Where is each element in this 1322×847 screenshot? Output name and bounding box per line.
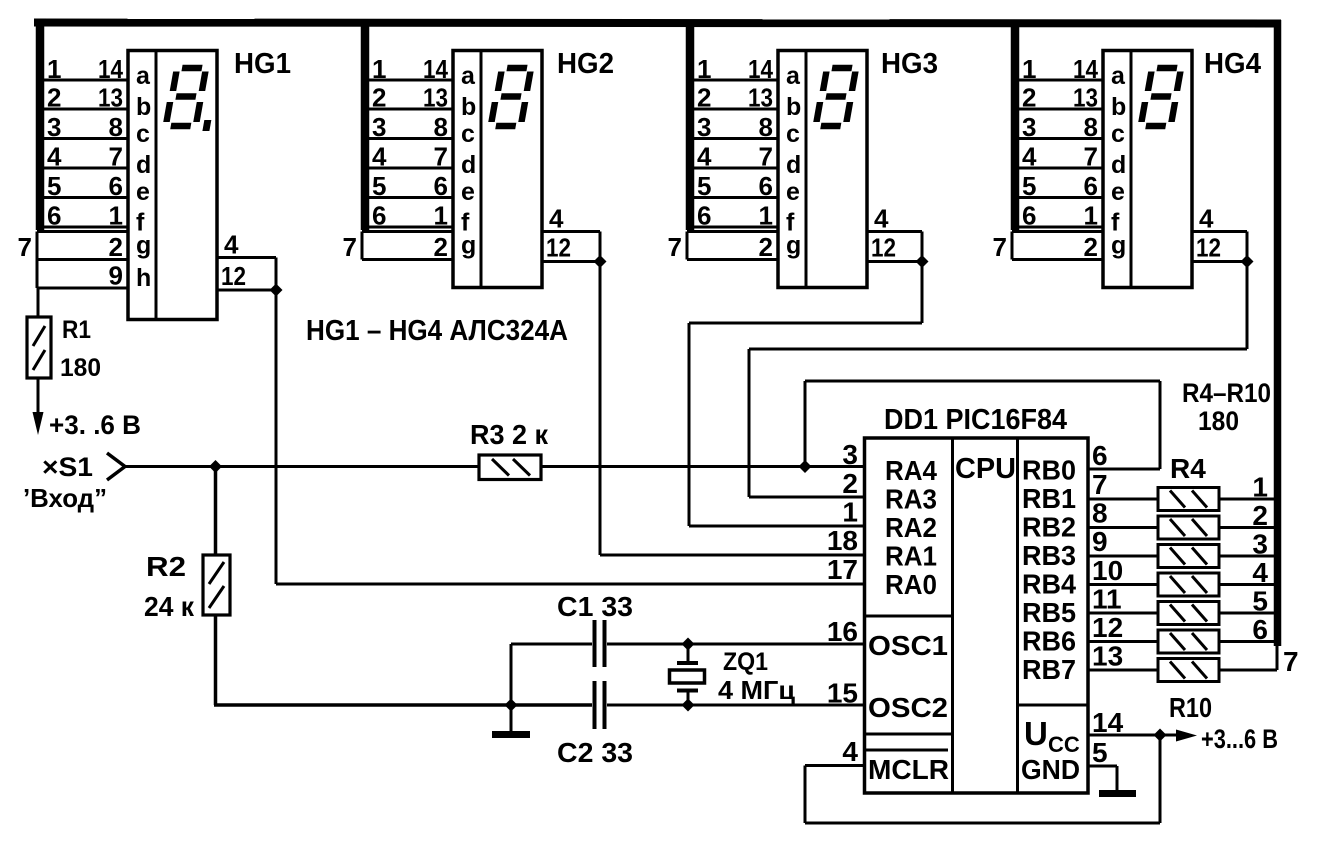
svg-text:4: 4 <box>47 142 62 172</box>
svg-text:C2 33: C2 33 <box>557 737 633 768</box>
IC DD1 left pin numbers <box>827 439 859 767</box>
wire input node to R2 <box>214 467 218 556</box>
wire HG3 pin12 to DD1 pin 1 (RA2) <box>689 262 922 527</box>
resistor R8 <box>1158 602 1219 625</box>
svg-text:RB2: RB2 <box>1022 512 1076 543</box>
svg-text:12: 12 <box>1092 612 1123 643</box>
svg-text:RB4: RB4 <box>1022 569 1076 600</box>
label DD1 PIC16F84 <box>884 404 1067 436</box>
svg-text:e: e <box>786 178 800 206</box>
node Ucc supply junction <box>1154 729 1167 742</box>
svg-text:R1: R1 <box>62 316 91 344</box>
label R4 <box>1170 453 1206 484</box>
svg-text:6: 6 <box>1084 171 1098 201</box>
svg-text:a: a <box>461 62 476 90</box>
svg-text:R2: R2 <box>146 551 186 582</box>
svg-text:ZQ1: ZQ1 <box>723 648 768 676</box>
svg-text:RA4: RA4 <box>885 455 937 486</box>
svg-text:6: 6 <box>434 171 448 201</box>
wire resistor R10 to segment bus (label 7) <box>1219 644 1299 677</box>
svg-text:7: 7 <box>993 232 1007 262</box>
label R3 2 к <box>470 419 549 450</box>
svg-text:6: 6 <box>47 201 61 231</box>
resistor R10 <box>1158 659 1219 682</box>
wire resistor R4 to segment bus (label 1) <box>1219 472 1277 503</box>
svg-text:CPU: CPU <box>955 453 1016 485</box>
svg-text:a: a <box>1111 62 1126 90</box>
svg-text:e: e <box>1111 178 1125 206</box>
segment supply bus: top border (thick) <box>34 23 1281 24</box>
svg-text:5: 5 <box>372 171 386 201</box>
svg-text:1: 1 <box>434 201 448 231</box>
svg-text:R4: R4 <box>1170 453 1206 484</box>
svg-text:4: 4 <box>1022 142 1037 172</box>
svg-text:OSC2: OSC2 <box>868 692 948 723</box>
svg-text:2: 2 <box>372 83 386 113</box>
svg-text:1: 1 <box>1084 201 1098 231</box>
svg-text:1: 1 <box>372 54 386 84</box>
wire R2 to ground rail <box>214 615 592 705</box>
svg-text:HG3: HG3 <box>881 48 938 80</box>
svg-text:5: 5 <box>1252 586 1268 617</box>
svg-text:13: 13 <box>1073 83 1098 113</box>
wire HG2 pin12 to DD1 pin 18 (RA1) <box>600 262 864 556</box>
label R1 180 <box>60 316 101 382</box>
svg-text:1: 1 <box>1252 472 1268 503</box>
svg-text:b: b <box>136 93 151 121</box>
svg-text:11: 11 <box>1092 584 1122 615</box>
resistor R3 <box>479 455 541 480</box>
label R2 24 к <box>144 551 195 622</box>
svg-text:RA1: RA1 <box>885 541 937 572</box>
connector XS1 input plug <box>23 452 125 513</box>
capacitor C1 <box>511 620 605 667</box>
svg-text:7: 7 <box>18 232 32 262</box>
svg-text:c: c <box>136 120 150 148</box>
svg-text:2: 2 <box>697 83 711 113</box>
wire resistor R8 to segment bus (label 5) <box>1219 586 1277 617</box>
display HG1 pin 7 label <box>18 232 32 262</box>
wire C1 to OSC1 node <box>607 643 688 646</box>
svg-text:2: 2 <box>1252 500 1268 531</box>
display HG4 supply bar (thick) <box>1011 20 1020 230</box>
wire resistor R5 to segment bus (label 2) <box>1219 500 1277 531</box>
svg-text:RB3: RB3 <box>1022 540 1076 571</box>
svg-text:6: 6 <box>1252 614 1268 645</box>
display HG1 body <box>128 51 217 320</box>
display HG4 pin boxes with pin numbers <box>1012 54 1103 262</box>
display HG4 label <box>1204 48 1261 80</box>
svg-text:9: 9 <box>1092 526 1108 557</box>
svg-text:d: d <box>1111 151 1126 179</box>
display HG2 supply bar (thick) <box>361 20 370 230</box>
svg-text:4: 4 <box>224 230 239 260</box>
IC DD1 port labels RA4-RA0 <box>885 455 937 600</box>
svg-text:24 к: 24 к <box>144 591 195 622</box>
wire DD1 pin 5 (GND) to ground <box>1088 766 1117 790</box>
resistor R4 <box>1158 488 1219 511</box>
svg-text:2: 2 <box>842 468 858 499</box>
svg-text:d: d <box>461 151 476 179</box>
display HG3 supply bar (thick) <box>686 20 695 230</box>
svg-text:RB5: RB5 <box>1022 597 1076 628</box>
svg-text:c: c <box>786 120 800 148</box>
svg-text:7: 7 <box>434 142 448 172</box>
svg-text:1: 1 <box>47 54 61 84</box>
svg-text:g: g <box>461 232 476 260</box>
display HG2 seven-segment digit <box>491 68 531 126</box>
wire OSC1 node to DD1 pin 16 <box>688 643 864 646</box>
svg-text:HG4: HG4 <box>1204 48 1261 80</box>
resistor R6 <box>1158 545 1219 568</box>
ground symbol (GND pin) <box>1099 790 1136 797</box>
node OSC1 junction <box>682 638 695 651</box>
svg-text:8: 8 <box>434 112 448 142</box>
wire DD1 pin 4 (MCLR) to supply node <box>805 735 1160 823</box>
svg-text:8: 8 <box>759 112 773 142</box>
svg-text:13: 13 <box>1092 641 1123 672</box>
svg-text:RB6: RB6 <box>1022 626 1076 657</box>
display HG2 label <box>557 48 614 80</box>
wire XS1 input to DD1 pin 3 (RA4) <box>125 465 864 468</box>
svg-text:9: 9 <box>109 261 123 291</box>
svg-text:14: 14 <box>423 54 448 84</box>
svg-text:6: 6 <box>109 171 123 201</box>
svg-text:15: 15 <box>827 678 858 709</box>
wire DD1 pin 9 (RB3) to resistor R6 <box>1088 555 1158 558</box>
svg-text:6: 6 <box>697 201 711 231</box>
IC DD1 MCLR label with overline <box>866 750 949 785</box>
display HG1 label <box>234 48 291 80</box>
svg-text:6: 6 <box>759 171 773 201</box>
svg-text:3: 3 <box>842 439 858 470</box>
resistor R2 <box>203 555 230 615</box>
wire R1 to supply arrow <box>37 378 40 416</box>
svg-text:17: 17 <box>827 554 858 585</box>
resistor R9 <box>1158 630 1219 653</box>
label HG1-HG4 type АЛС324А <box>306 315 568 347</box>
svg-text:13: 13 <box>748 83 773 113</box>
svg-text:14: 14 <box>748 54 773 84</box>
power +3..6 V arrow (left) <box>33 410 142 440</box>
crystal ZQ1 <box>670 644 705 705</box>
svg-text:1: 1 <box>109 201 123 231</box>
svg-text:MCLR: MCLR <box>868 754 949 785</box>
svg-text:g: g <box>1111 232 1126 260</box>
svg-text:14: 14 <box>1073 54 1098 84</box>
svg-text:DD1 PIC16F84: DD1 PIC16F84 <box>884 404 1067 436</box>
svg-text:3: 3 <box>1252 529 1268 560</box>
capacitor C2 <box>595 681 605 729</box>
svg-text:HG1 – HG4 АЛС324А: HG1 – HG4 АЛС324А <box>306 315 568 347</box>
node OSC2 junction <box>682 699 695 712</box>
svg-text:7: 7 <box>759 142 773 172</box>
display HG2 body <box>453 51 542 288</box>
svg-text:5: 5 <box>697 171 711 201</box>
svg-text:RA0: RA0 <box>885 569 937 600</box>
svg-text:14: 14 <box>98 54 123 84</box>
svg-text:3: 3 <box>1022 112 1036 142</box>
IC DD1 PIC16F84 body <box>865 438 1089 793</box>
svg-text:R10: R10 <box>1169 692 1212 723</box>
label C2 33 <box>557 737 633 768</box>
svg-text:4 МГц: 4 МГц <box>718 675 795 705</box>
svg-text:8: 8 <box>109 112 123 142</box>
wire DD1 pin 14 (Ucc) to supply node <box>1088 734 1160 737</box>
wire DD1 pin 7 (RB1) to resistor R4 <box>1088 498 1158 501</box>
display HG2 common-cathode pins 4/12 <box>542 204 600 263</box>
svg-text:5: 5 <box>47 171 61 201</box>
wire DD1 pin 12 (RB6) to resistor R9 <box>1088 640 1158 643</box>
svg-text:a: a <box>136 62 151 90</box>
svg-text:c: c <box>461 120 475 148</box>
wire HG4 pin12 to DD1 pin 2 (RA3) <box>749 262 1247 498</box>
svg-text:10: 10 <box>1092 555 1123 586</box>
svg-text:HG1: HG1 <box>234 48 291 80</box>
node ground junction <box>505 699 518 712</box>
display HG1 pin boxes with pin numbers <box>37 54 128 291</box>
svg-text:b: b <box>1111 93 1126 121</box>
wire HG1 h-row to R1 <box>37 288 40 318</box>
display HG3 seven-segment digit <box>816 68 856 126</box>
IC DD1 OSC1 OSC2 labels <box>868 630 948 723</box>
svg-text:RA2: RA2 <box>885 512 937 543</box>
svg-text:g: g <box>786 232 801 260</box>
power +3...6 V arrow (right) <box>1160 724 1278 754</box>
wire resistor R6 to segment bus (label 3) <box>1219 529 1277 560</box>
svg-text:RB7: RB7 <box>1022 654 1076 685</box>
wire DD1 pin 6 (RB0) loop to RA4 node <box>805 381 1160 469</box>
svg-text:7: 7 <box>1084 142 1098 172</box>
wire DD1 pin 11 (RB5) to resistor R8 <box>1088 612 1158 615</box>
svg-text:+3...6 В: +3...6 В <box>1201 724 1278 754</box>
svg-text:12: 12 <box>546 233 571 263</box>
svg-text:e: e <box>461 178 475 206</box>
wire OSC2 node to DD1 pin 15 <box>688 704 864 707</box>
display HG3 label <box>881 48 938 80</box>
svg-text:7: 7 <box>1092 469 1108 500</box>
svg-text:OSC1: OSC1 <box>868 630 948 661</box>
label R4-R10 180 <box>1182 378 1271 436</box>
node HG2 output junction <box>594 255 607 268</box>
svg-text:4: 4 <box>842 736 858 767</box>
label ZQ1 4 МГц <box>718 648 795 705</box>
svg-text:3: 3 <box>47 112 61 142</box>
svg-text:R4–R10: R4–R10 <box>1182 378 1271 408</box>
svg-text:16: 16 <box>827 616 858 647</box>
IC DD1 right pin numbers <box>1092 440 1124 768</box>
svg-text:2: 2 <box>109 232 123 262</box>
svg-text:GND: GND <box>1021 754 1080 785</box>
svg-text:14: 14 <box>1092 707 1124 738</box>
svg-text:7: 7 <box>668 232 682 262</box>
node HG4 output junction <box>1241 255 1254 268</box>
svg-text:18: 18 <box>827 525 858 556</box>
svg-text:C1 33: C1 33 <box>557 591 633 622</box>
svg-text:2: 2 <box>1084 232 1098 262</box>
svg-text:b: b <box>461 93 476 121</box>
resistor R1 <box>27 317 51 378</box>
svg-text:g: g <box>136 232 151 260</box>
svg-text:h: h <box>136 264 151 292</box>
display HG3 body <box>778 51 867 288</box>
IC DD1 port labels RB0-RB7 <box>1022 455 1076 686</box>
svg-text:HG2: HG2 <box>557 48 614 80</box>
display HG4 pin 7 label <box>993 232 1007 262</box>
wire resistor R7 to segment bus (label 4) <box>1219 557 1277 588</box>
svg-text:7: 7 <box>1283 646 1299 677</box>
label C1 33 <box>557 591 633 622</box>
svg-text:c: c <box>1111 120 1125 148</box>
svg-text:180: 180 <box>60 354 101 382</box>
node input/R2 junction <box>209 460 222 473</box>
svg-text:2: 2 <box>759 232 773 262</box>
node HG1 output junction <box>270 284 283 297</box>
svg-text:6: 6 <box>1022 201 1036 231</box>
wire DD1 pin 13 (RB7) to resistor R10 <box>1088 669 1158 672</box>
ground symbol (oscillator) <box>492 644 530 735</box>
svg-text:12: 12 <box>871 233 896 263</box>
svg-text:12: 12 <box>221 261 246 291</box>
svg-text:RA3: RA3 <box>885 484 937 515</box>
display HG4 body <box>1103 51 1192 288</box>
display HG3 pin 7 label <box>668 232 682 262</box>
IC DD1 Ucc GND labels <box>1021 715 1080 785</box>
wire DD1 pin 10 (RB4) to resistor R7 <box>1088 583 1158 586</box>
svg-text:4: 4 <box>549 204 564 234</box>
wire C2 to OSC2 node <box>607 704 688 707</box>
display HG4 common-cathode pins 4/12 <box>1192 204 1247 263</box>
display HG2 pin boxes with pin numbers <box>362 54 453 262</box>
display HG1 seven-segment digit <box>165 68 217 131</box>
svg-text:2: 2 <box>47 83 61 113</box>
wire resistor R9 to segment bus (label 6) <box>1219 614 1277 645</box>
svg-text:180: 180 <box>1198 406 1239 436</box>
svg-text:2: 2 <box>434 232 448 262</box>
svg-text:U: U <box>1024 715 1048 752</box>
label CPU <box>955 453 1016 485</box>
svg-text:RB0: RB0 <box>1022 455 1076 486</box>
svg-text:1: 1 <box>697 54 711 84</box>
display HG3 pin boxes with pin numbers <box>687 54 778 262</box>
svg-text:13: 13 <box>423 83 448 113</box>
svg-text:b: b <box>786 93 801 121</box>
svg-text:8: 8 <box>1092 498 1108 529</box>
svg-text:4: 4 <box>372 142 387 172</box>
node RA4/RB0 junction <box>799 460 812 473</box>
svg-text:4: 4 <box>874 204 889 234</box>
svg-text:5: 5 <box>1022 171 1036 201</box>
svg-text:4: 4 <box>697 142 712 172</box>
svg-text:2: 2 <box>1022 83 1036 113</box>
svg-text:1: 1 <box>1022 54 1036 84</box>
svg-text:R3 2 к: R3 2 к <box>470 419 549 450</box>
display HG2 pin 7 label <box>343 232 357 262</box>
svg-text:RB1: RB1 <box>1022 483 1076 514</box>
svg-text:3: 3 <box>697 112 711 142</box>
svg-text:d: d <box>786 151 801 179</box>
svg-text:×S1: ×S1 <box>42 452 93 482</box>
segment supply bus: right vertical (thick) <box>1274 20 1282 646</box>
svg-text:5: 5 <box>1092 737 1108 768</box>
svg-text:13: 13 <box>98 83 123 113</box>
svg-text:7: 7 <box>343 232 357 262</box>
resistor R5 <box>1158 516 1219 539</box>
display HG3 common-cathode pins 4/12 <box>867 204 922 263</box>
svg-text:d: d <box>136 151 151 179</box>
display HG1 supply bar (thick) <box>36 20 45 230</box>
svg-text:3: 3 <box>372 112 386 142</box>
display HG4 seven-segment digit <box>1141 68 1181 126</box>
svg-text:+3. .6 В: +3. .6 В <box>49 410 141 440</box>
svg-text:4: 4 <box>1252 557 1268 588</box>
resistor R7 <box>1158 573 1219 596</box>
svg-text:a: a <box>786 62 801 90</box>
svg-text:1: 1 <box>759 201 773 231</box>
svg-text:6: 6 <box>1092 440 1108 471</box>
wire DD1 pin 8 (RB2) to resistor R5 <box>1088 526 1158 529</box>
svg-text:’Вход”: ’Вход” <box>23 483 107 513</box>
svg-text:12: 12 <box>1196 233 1221 263</box>
svg-text:4: 4 <box>1199 204 1214 234</box>
wire HG1 pin12 to DD1 pin 17 (RA0) <box>276 290 864 584</box>
node HG3 output junction <box>916 255 929 268</box>
svg-text:1: 1 <box>842 497 858 528</box>
svg-text:8: 8 <box>1084 112 1098 142</box>
display HG1 common-cathode pins 4/12 <box>217 230 276 292</box>
svg-text:7: 7 <box>109 142 123 172</box>
svg-text:6: 6 <box>372 201 386 231</box>
svg-text:e: e <box>136 178 150 206</box>
label R10 <box>1169 692 1212 723</box>
